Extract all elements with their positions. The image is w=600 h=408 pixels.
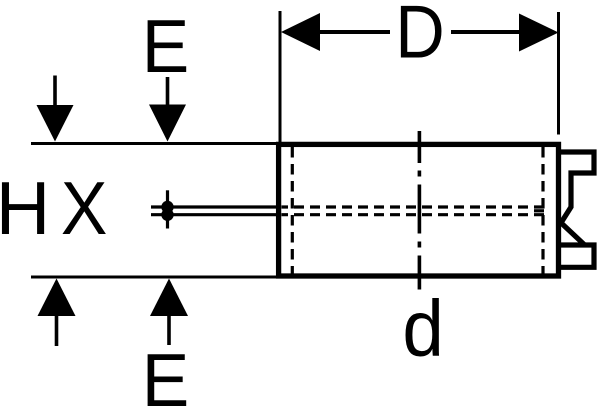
center line (dash-dot) xyxy=(418,131,422,290)
arrow E top-left head xyxy=(37,105,74,142)
X measure double line lower xyxy=(151,213,277,216)
svg-text:H: H xyxy=(0,166,50,250)
heating coil dashed line upper xyxy=(282,205,545,208)
svg-text:X: X xyxy=(61,166,108,250)
coupling body outline xyxy=(279,144,559,276)
svg-text:E: E xyxy=(142,338,190,408)
arrow E top-right stem xyxy=(166,77,170,110)
svg-text:d: d xyxy=(402,284,444,373)
arrow E bottom-left stem xyxy=(55,312,59,346)
fusion indicator dashed vertical right xyxy=(541,147,544,274)
svg-text:D: D xyxy=(395,0,445,73)
dimension line D right segment xyxy=(451,30,522,34)
arrowhead D right xyxy=(519,14,559,52)
X marker dot upper xyxy=(161,201,173,213)
fusion indicator dashed vertical left xyxy=(291,147,294,274)
coil end dash xyxy=(534,209,544,212)
arrowhead D left xyxy=(281,13,320,51)
bottom reference line xyxy=(31,276,278,279)
heating coil dashed line lower xyxy=(282,213,545,216)
svg-text:E: E xyxy=(142,4,190,88)
X marker dot lower xyxy=(161,209,173,221)
extension line left of D xyxy=(279,11,282,142)
arrow E bottom-right head xyxy=(150,279,188,317)
top reference line xyxy=(31,142,278,145)
X marker tick xyxy=(166,190,169,228)
terminal tab bottom xyxy=(559,245,594,267)
arrow E top-right head xyxy=(149,105,186,142)
arrow E bottom-right stem xyxy=(167,312,171,345)
arrow E bottom-left head xyxy=(38,279,76,317)
extension line right of D xyxy=(557,12,560,135)
dimension line D left segment xyxy=(316,30,390,34)
X measure double line upper xyxy=(151,205,277,208)
terminal tab top and notch xyxy=(559,152,594,245)
arrow E top-left stem xyxy=(53,76,57,111)
